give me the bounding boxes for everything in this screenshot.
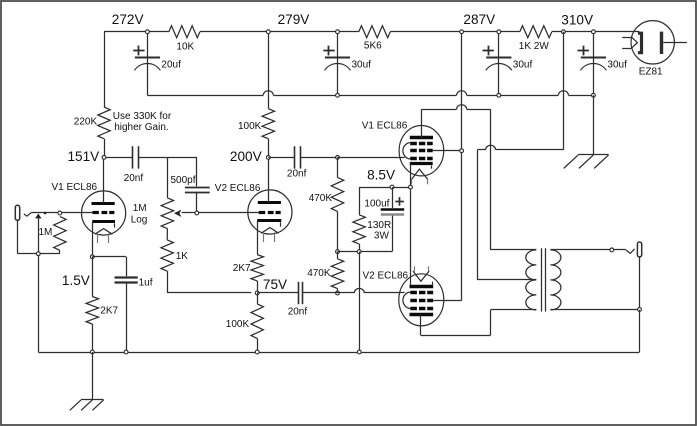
node 130R bottom [357, 250, 361, 254]
V1 pent anode lead [421, 109, 423, 138]
wire V2 anode to OT [421, 310, 491, 336]
V2 pent grid rows [410, 293, 433, 309]
V2 triode grid dashes [259, 211, 281, 214]
wire 1K to 75V row [167, 271, 251, 293]
node 470K top [336, 156, 340, 160]
wire 272V to 220K [104, 32, 106, 107]
V2 triode heater [261, 228, 278, 242]
V1 triode cathode lead [92, 222, 94, 257]
label 220K [74, 116, 98, 127]
jack switch arrow [35, 214, 41, 219]
V1 pent screen lead [433, 150, 462, 152]
label 20nf (bottom) [288, 306, 308, 317]
V2 pent cathode lead [410, 187, 412, 285]
wire pot top to 500pf [167, 157, 196, 186]
capacitor 1uf [115, 278, 138, 283]
node 279V rail [266, 30, 270, 34]
pot wiper arrow [174, 210, 197, 217]
capacitor 20nf (top) [295, 146, 301, 168]
wire cap ground bus [147, 95, 593, 97]
transformer core [542, 248, 546, 311]
svg-text:151V: 151V [68, 149, 100, 164]
V2 pent anode bar [410, 313, 434, 316]
node 75V [255, 291, 259, 295]
contact dot [44, 212, 47, 215]
node secondary top [610, 248, 614, 252]
resistor 470K (lower) [331, 259, 343, 289]
wire 310V down [563, 32, 565, 150]
wire 8.5V to 130R [359, 187, 361, 215]
V1 pent heater [412, 169, 428, 184]
label V1 ECL86 (pentode) [362, 120, 408, 131]
V2 triode anode lead [268, 157, 270, 202]
wire bottom row [338, 251, 393, 253]
node 20uf rail [146, 30, 150, 34]
label 100K [238, 121, 262, 132]
label 1M Log [131, 203, 148, 226]
svg-text:500pf: 500pf [171, 175, 196, 186]
wire 279V to 100K [268, 32, 270, 109]
svg-text:470K: 470K [309, 193, 333, 204]
wire 200V to 20nf [268, 157, 294, 159]
label 1uf [139, 278, 153, 289]
svg-text:470K: 470K [307, 268, 331, 279]
V1 pent anode bar [410, 136, 433, 139]
wire 500pf to wiper node [196, 193, 198, 213]
label 287V [463, 12, 495, 27]
wire jack sleeve [18, 220, 60, 253]
svg-text:272V: 272V [112, 12, 144, 27]
resistor 1K [161, 240, 173, 271]
label 272V [112, 12, 144, 27]
wire 1uf to ground bus [126, 283, 128, 352]
resistor 470K (upper) [331, 177, 343, 211]
speaker jack [637, 242, 641, 257]
wire to V2 pent grid [338, 292, 405, 294]
V1 pent cathode lead [410, 164, 412, 187]
capacitor 30uf (310V) [578, 32, 628, 96]
svg-text:100K: 100K [226, 319, 250, 330]
V1 pent left arc [403, 143, 410, 160]
resistor 1M (grid leak) [54, 217, 66, 251]
node V1 screen [460, 149, 464, 153]
label 20nf (top) [287, 169, 307, 180]
resistor 5K6 [359, 26, 391, 38]
svg-text:30uf: 30uf [607, 59, 627, 70]
svg-text:1M: 1M [133, 203, 147, 214]
EZ81 cathode bar [660, 32, 663, 54]
label 10K [176, 42, 194, 53]
wire 20nf to 470K bottom [303, 292, 338, 294]
wire cathode net to bus [359, 252, 361, 352]
resistor 220K [98, 107, 110, 139]
label 500pf [171, 175, 196, 186]
label 2K7 [100, 305, 118, 316]
svg-text:1K 2W: 1K 2W [519, 41, 550, 52]
node 310V rail [562, 30, 566, 34]
svg-text:higher Gain.: higher Gain. [114, 122, 168, 133]
node 470K bottom [336, 291, 340, 295]
V2 triode cathode bar [257, 221, 281, 227]
wire speaker sleeve [639, 257, 641, 309]
wire 8.5V row [359, 187, 410, 189]
transformer secondary [550, 250, 561, 310]
capacitor 30uf (287V) [483, 32, 533, 96]
tube V2 triode envelope [248, 190, 292, 234]
wire OT secondary bottom [550, 309, 639, 311]
label 1K [176, 251, 189, 262]
wire hop grid over cathode drop [354, 288, 364, 293]
svg-text:1M: 1M [39, 227, 53, 238]
svg-text:30uf: 30uf [352, 59, 372, 70]
resistor 130R 3W [353, 215, 365, 244]
svg-text:2K7: 2K7 [100, 305, 118, 316]
svg-text:20nf: 20nf [288, 306, 308, 317]
EZ81 heater [622, 37, 637, 49]
capacitor 20nf (V1 triode out) [133, 146, 139, 168]
node cathodes [409, 185, 413, 189]
svg-text:2K7: 2K7 [233, 263, 251, 274]
label V1 ECL86 (triode) [52, 182, 98, 193]
svg-text:220K: 220K [74, 116, 98, 127]
V1 triode heater [95, 229, 112, 243]
wire hop bus over 287V line [457, 91, 467, 96]
label 100uf [364, 198, 389, 209]
node jack ground [36, 252, 40, 256]
wire OT primary top lead [491, 249, 537, 251]
capacitor 20nf (bottom) [299, 282, 303, 304]
wire pot lead [167, 157, 169, 198]
ground (bus) [564, 95, 609, 168]
resistor 10K [169, 26, 200, 38]
node 30uf-3 rail [592, 30, 596, 34]
node 30uf-1 rail [336, 30, 340, 34]
capacitor 30uf (279V) [323, 32, 371, 96]
wire secondary to ground bus [639, 310, 641, 352]
svg-text:130R: 130R [367, 220, 391, 231]
label 470K (upper) [309, 193, 333, 204]
label V2 ECL86 (triode) [215, 183, 261, 194]
wire top B+ rail [104, 31, 639, 33]
wire OT secondary top [550, 249, 625, 251]
resistor 100K (V2 anode) [262, 109, 274, 139]
svg-text:75V: 75V [263, 277, 287, 292]
node V1 cathode [90, 255, 94, 259]
V1 pent grid rows [410, 144, 433, 159]
label 1.5V [62, 273, 90, 288]
node 30uf-3 bus [592, 93, 596, 97]
potentiometer 1M Log [161, 198, 173, 229]
svg-text:V1 ECL86: V1 ECL86 [362, 120, 408, 131]
label 130R 3W [367, 220, 391, 241]
node secondary bottom [638, 308, 642, 312]
node 470K junction [336, 250, 340, 254]
svg-text:1.5V: 1.5V [62, 273, 90, 288]
V2 triode cathode lead [257, 221, 259, 255]
label 1M [39, 227, 53, 238]
svg-text:Use 330K for: Use 330K for [113, 111, 172, 122]
svg-text:V2 ECL86: V2 ECL86 [215, 183, 261, 194]
wire to V1 pent grid [338, 157, 405, 159]
label 100K (75V) [226, 319, 250, 330]
capacitor 20uf [133, 32, 181, 96]
node 30uf-1 bus [336, 93, 340, 97]
tube V1 pentode envelope [399, 126, 444, 176]
V1 triode cathode bar [92, 222, 115, 228]
tube V1 triode envelope [82, 191, 126, 235]
label 279V [278, 12, 310, 27]
V1 triode grid dashes [92, 211, 114, 214]
resistor 1K 2W [520, 26, 552, 38]
svg-text:310V: 310V [561, 12, 593, 27]
note Use 330K [113, 111, 172, 133]
svg-text:279V: 279V [278, 12, 310, 27]
svg-text:20nf: 20nf [287, 169, 307, 180]
100uf plus [395, 197, 404, 206]
wire 100K to bus [257, 338, 259, 352]
wire 220K to 151V node [104, 139, 106, 158]
label 310V [561, 12, 593, 27]
label 75V [263, 277, 287, 292]
wire hop anode over 287V [457, 105, 467, 110]
wire hop bus over 310V line [558, 91, 568, 96]
wire 75V to 20nf [257, 292, 298, 294]
svg-text:5K6: 5K6 [364, 40, 382, 51]
wire hop 310V over OT lead [486, 145, 496, 150]
wire ground drop from jack [38, 254, 40, 352]
wire 1M bottom [59, 250, 61, 253]
capacitor 100uf [381, 210, 405, 215]
svg-text:V1 ECL86: V1 ECL86 [52, 182, 98, 193]
wire hop bus over 100K [263, 91, 273, 96]
svg-text:287V: 287V [463, 12, 495, 27]
svg-text:1uf: 1uf [139, 278, 153, 289]
wire OT CT lead [477, 279, 536, 281]
node 200V [266, 156, 270, 160]
svg-text:20nf: 20nf [124, 173, 144, 184]
wire switch to sleeve row [38, 218, 40, 253]
wire grid line [31, 212, 92, 214]
V2 pent cathode bar [410, 282, 434, 287]
resistor 2K7 (V2) [251, 255, 263, 281]
wire 100K to 200V node [268, 139, 270, 158]
wire 20nf to pot top [139, 157, 168, 159]
node bus 1uf [124, 350, 128, 354]
wire 2K7 to 75V node [257, 281, 259, 293]
wire 470K lower leads [337, 252, 339, 293]
wire wiper node to V2 grid [197, 212, 259, 214]
node 287V rail [460, 30, 464, 34]
svg-text:EZ81: EZ81 [639, 67, 663, 78]
label 8.5V [367, 168, 395, 183]
V1 triode anode lead [103, 157, 105, 203]
tube EZ81 envelope [631, 21, 674, 64]
transformer primary [526, 250, 537, 310]
wire cathode to 1uf [92, 257, 126, 277]
wire 151V node to 20nf [104, 157, 133, 159]
node 30uf-2 rail [497, 30, 501, 34]
V2 pent left arc [403, 292, 410, 309]
wire 20nf to 470K node [301, 157, 338, 159]
wire 75V to 100K [257, 293, 259, 304]
speaker tip contact [626, 249, 635, 254]
label 1K 2W [519, 41, 550, 52]
input jack [15, 205, 19, 220]
svg-text:200V: 200V [230, 149, 262, 164]
wire ground bus [38, 352, 639, 354]
node bus cathode [357, 350, 361, 354]
label 2K7 (V2) [233, 263, 251, 274]
svg-text:3W: 3W [374, 230, 390, 241]
wire pot to 1K [166, 229, 168, 240]
svg-text:Log: Log [131, 215, 148, 226]
node 151V [102, 156, 106, 160]
wire OT primary bottom lead [491, 309, 537, 311]
wire 100uf leads [392, 187, 394, 252]
V2 pent screen lead [433, 300, 461, 302]
label EZ81 [639, 67, 663, 78]
svg-text:30uf: 30uf [513, 59, 533, 70]
wire 287V screens [461, 32, 463, 301]
node bus 2K7 [90, 350, 94, 354]
svg-text:V2 ECL86: V2 ECL86 [363, 271, 409, 282]
wire 310V to CT [477, 150, 563, 280]
tube V2 pentode envelope [399, 274, 444, 326]
V2 triode anode bar [258, 201, 281, 204]
node wiper junction [195, 211, 199, 215]
resistor 2K7 (V1) [86, 297, 98, 325]
V1 pent cathode bar [410, 164, 433, 169]
EZ81 cathode lead [663, 42, 687, 44]
node 30uf-2 bus [497, 93, 501, 97]
label 20nf [124, 173, 144, 184]
svg-text:1K: 1K [176, 251, 189, 262]
wire cathode to 2K7 [92, 257, 94, 297]
svg-text:100uf: 100uf [364, 198, 389, 209]
resistor 100K (75V) [251, 304, 263, 339]
label 5K6 [364, 40, 382, 51]
V2 pent heater [413, 266, 429, 281]
wire 470K upper leads [337, 157, 339, 251]
label V2 ECL86 (pentode) [363, 271, 409, 282]
ground (main) [70, 352, 104, 410]
label 200V [230, 149, 262, 164]
wire 130R to bottom row [359, 244, 361, 252]
jack tip contact [24, 213, 31, 216]
V1 triode anode bar [92, 202, 115, 205]
node 100uf top [390, 185, 394, 189]
capacitor 500pf [185, 188, 210, 193]
node bus 100K [255, 350, 259, 354]
svg-text:8.5V: 8.5V [367, 168, 395, 183]
svg-text:10K: 10K [176, 42, 194, 53]
V2 pent anode lead [420, 315, 422, 336]
node 1M top [58, 211, 62, 215]
svg-text:20uf: 20uf [161, 59, 181, 70]
EZ81 anode bracket [638, 33, 642, 53]
label 151V [68, 149, 100, 164]
label 470K (lower) [307, 268, 331, 279]
wire V1 anode to OT top [421, 109, 490, 250]
svg-text:100K: 100K [238, 121, 262, 132]
wire 2K7 to bus [92, 324, 94, 352]
